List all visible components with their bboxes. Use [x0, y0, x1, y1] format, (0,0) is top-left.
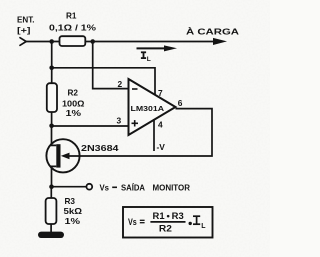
pin 4 lead [153, 119, 155, 151]
fraction bar [150, 221, 185, 223]
current IL arrow [137, 47, 168, 49]
node pin3 junction [49, 124, 54, 129]
resistor R1 [60, 36, 86, 46]
wire input node down to R2 top [51, 42, 53, 84]
svg-text:ENT.: ENT. [17, 15, 35, 25]
svg-text:LM301A: LM301A [131, 104, 165, 113]
svg-text:2N3684: 2N3684 [81, 144, 119, 153]
svg-text:4: 4 [158, 120, 163, 130]
drain lead [52, 126, 57, 145]
node input junction [49, 39, 54, 44]
wire pin 6 feedback to gate [68, 109, 212, 156]
formula box [123, 207, 213, 238]
arrowhead to load [213, 38, 227, 45]
wire node to pin 7 (V+) [52, 68, 155, 97]
plus sign [132, 120, 139, 126]
wire R3 to ground [50, 224, 52, 233]
svg-text:À CARGA: À CARGA [186, 26, 239, 37]
wire node to R3 [50, 187, 52, 199]
terminal Vs open circle [86, 184, 92, 190]
svg-text:L: L [147, 56, 151, 63]
svg-text:L: L [201, 223, 206, 230]
wire input to R1 [26, 41, 60, 43]
wire node to pin 3 [52, 125, 129, 127]
resistor R3 [46, 198, 57, 224]
svg-text:3: 3 [117, 115, 122, 125]
svg-text:100Ω: 100Ω [62, 98, 85, 108]
svg-text:R2: R2 [159, 224, 172, 234]
source lead [52, 166, 57, 187]
svg-text:2: 2 [118, 79, 123, 89]
resistor R2 [47, 83, 57, 112]
svg-text:1%: 1% [66, 108, 82, 118]
svg-text:Vs: Vs [128, 217, 137, 227]
transistor Q1 2N3684 [46, 139, 79, 172]
svg-text:R1 • R3: R1 • R3 [153, 211, 184, 221]
svg-text:Vs: Vs [100, 183, 110, 192]
wire to monitor terminal [52, 186, 87, 188]
svg-text:[+]: [+] [17, 25, 31, 35]
label IL [141, 52, 146, 58]
svg-text:R1: R1 [66, 12, 77, 21]
svg-text:R2: R2 [68, 89, 79, 98]
formula dot IL [189, 222, 192, 225]
svg-text:0,1Ω / 1%: 0,1Ω / 1% [49, 23, 96, 33]
node R1 right junction [90, 39, 95, 44]
minus sign [132, 88, 138, 90]
ground [38, 232, 64, 238]
svg-text:SAÍDA: SAÍDA [121, 183, 145, 192]
svg-text:7: 7 [158, 88, 163, 98]
svg-text:5kΩ: 5kΩ [64, 207, 83, 216]
gate arrowhead [61, 153, 70, 160]
svg-text:6: 6 [178, 98, 183, 108]
node monitor junction [49, 184, 54, 189]
wire R1 right to pin 2 [93, 42, 129, 89]
svg-text:R3: R3 [65, 197, 76, 206]
svg-text:-V: -V [157, 142, 166, 152]
input terminal chevron [20, 38, 26, 46]
channel bar [56, 144, 60, 167]
node R2 top junction [49, 66, 54, 71]
svg-text:1%: 1% [65, 217, 81, 226]
wire R2 bottom to pin3 node [51, 112, 53, 126]
op-amp U1 LM301A [129, 79, 176, 135]
svg-text:MONITOR: MONITOR [153, 183, 191, 192]
wire R1 to load arrow [85, 41, 218, 43]
